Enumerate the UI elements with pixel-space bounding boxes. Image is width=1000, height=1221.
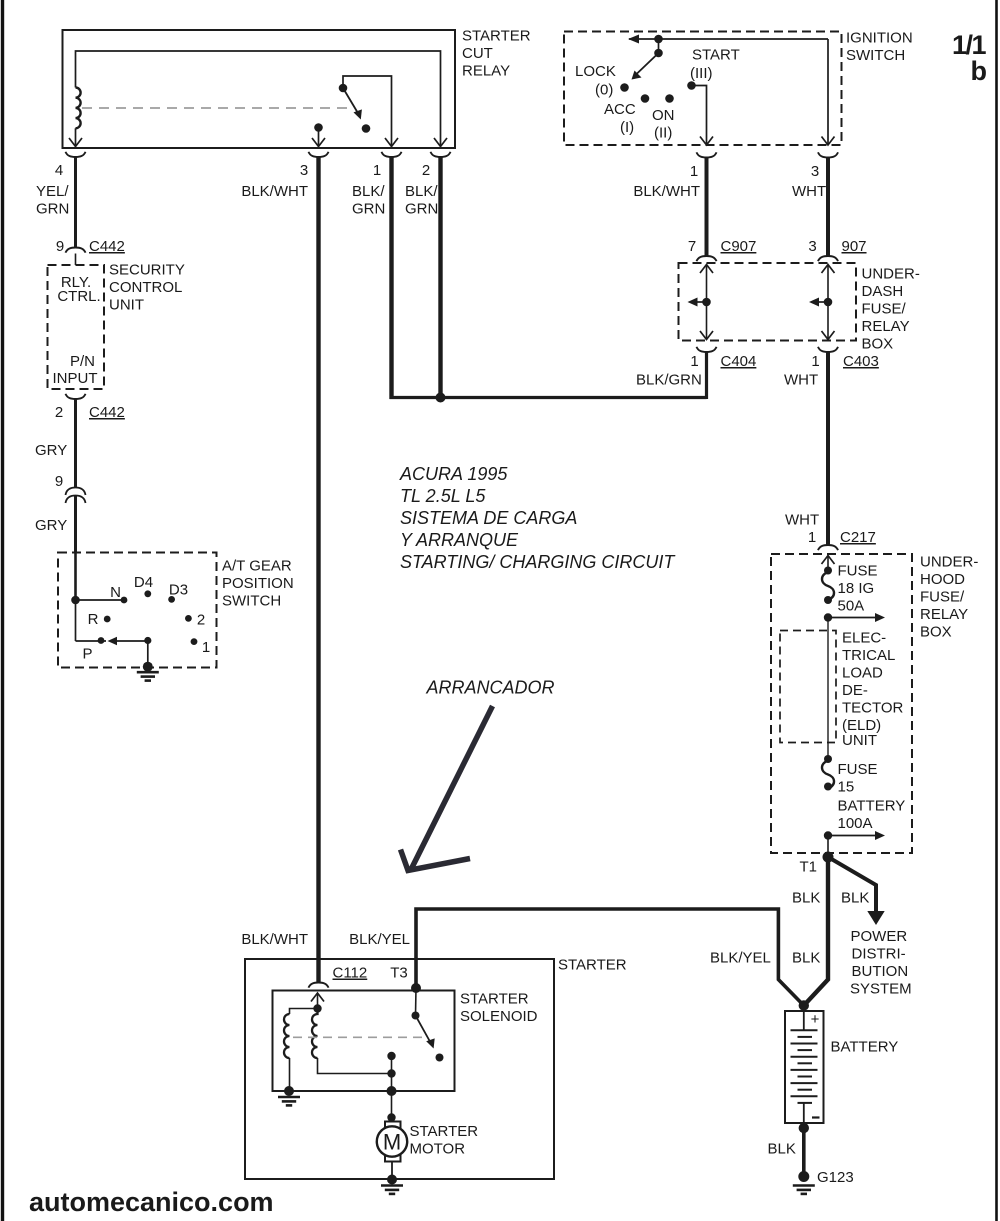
svg-text:T1: T1 — [799, 859, 817, 876]
svg-text:2: 2 — [422, 162, 430, 179]
wire C403 WHT down to C217 — [826, 352, 830, 545]
svg-text:ON: ON — [652, 107, 675, 124]
security control unit box — [48, 265, 105, 389]
svg-text:C442: C442 — [89, 404, 125, 421]
svg-text:FUSE: FUSE — [838, 563, 878, 580]
A/T left vertical wire — [75, 600, 77, 641]
underhood fuse/relay box — [771, 554, 912, 853]
relay switch common contact — [339, 84, 348, 93]
solenoid left coil — [284, 1014, 290, 1058]
ignition pin1 connector cup — [697, 152, 717, 157]
relay pin1 connector cup — [382, 152, 402, 157]
svg-text:(I): (I) — [620, 119, 634, 136]
svg-text:BLK: BLK — [768, 1141, 796, 1158]
wire pin3 BLK/WHT long run — [316, 157, 320, 982]
svg-text:G123: G123 — [817, 1169, 854, 1186]
svg-text:3: 3 — [808, 238, 816, 255]
ignition ACC contact — [641, 94, 650, 103]
battery junction dot — [799, 1000, 809, 1010]
svg-text:C442: C442 — [89, 238, 125, 255]
label 1 C404 — [690, 353, 756, 370]
arrancador arrowhead — [401, 850, 471, 871]
svg-text:FUSE/: FUSE/ — [920, 589, 965, 606]
svg-text:POSITION: POSITION — [222, 575, 294, 592]
svg-text:CUT: CUT — [462, 45, 493, 62]
wire label BLK/GRN pin2 — [405, 183, 438, 218]
svg-text:DISTRI-: DISTRI- — [852, 946, 906, 963]
svg-text:T3: T3 — [390, 965, 408, 982]
svg-text:RELAY: RELAY — [920, 606, 968, 623]
wire pin4 YEL/GRN — [74, 157, 77, 248]
ignition junction dot top — [654, 35, 663, 44]
ignition top wire arrowhead left — [628, 35, 639, 44]
label LOCK (0) — [575, 63, 616, 99]
A/T wire to P with arrowhead — [76, 637, 148, 646]
ignition START wire — [692, 86, 707, 146]
label starter cut relay — [462, 28, 531, 80]
label fuse 18 IG 50A — [838, 563, 878, 615]
label 9 C442 — [56, 238, 125, 255]
underhood exit stub — [827, 836, 829, 858]
underdash left internal wire — [706, 265, 708, 339]
svg-text:SISTEMA DE CARGA: SISTEMA DE CARGA — [400, 508, 577, 528]
fuse 15 battery 100A — [822, 755, 834, 791]
solenoid contact upper dot — [387, 1052, 395, 1060]
svg-text:b: b — [971, 56, 988, 86]
wire GRY upper — [74, 399, 77, 488]
ignition pin3 connector cup — [818, 152, 838, 157]
svg-text:BLK/YEL: BLK/YEL — [710, 950, 771, 967]
svg-text:BUTION: BUTION — [852, 963, 909, 980]
fuse1 junction dot — [824, 613, 832, 621]
power distribution arrowhead — [867, 911, 884, 925]
svg-text:ARRANCADOR: ARRANCADOR — [426, 678, 555, 698]
svg-text:2: 2 — [55, 404, 63, 421]
label ACC (I) — [604, 101, 636, 136]
svg-text:ACURA 1995: ACURA 1995 — [399, 464, 508, 484]
wire T1 to battery — [804, 857, 828, 1006]
label ELD unit — [842, 630, 904, 750]
label 2 C442 — [55, 404, 125, 421]
starter solenoid box — [273, 991, 455, 1092]
label 7 C907 — [688, 238, 757, 255]
solenoid switch NO contact dot — [436, 1054, 444, 1062]
svg-text:UNDER-: UNDER- — [920, 554, 978, 571]
junction dot pin2/horizontal — [436, 393, 446, 403]
svg-text:BOX: BOX — [862, 336, 894, 353]
label RLY. CTRL. — [57, 274, 100, 305]
wire BLK/YEL starter to battery — [416, 909, 804, 1006]
svg-text:(III): (III) — [690, 65, 713, 82]
label underhood box — [920, 554, 978, 641]
svg-text:INPUT: INPUT — [53, 370, 98, 387]
battery bottom junction dot — [799, 1123, 809, 1133]
label P/N INPUT — [53, 353, 98, 387]
label 1 C403 — [811, 353, 879, 370]
relay pin2 connector cup — [431, 152, 451, 157]
motor wire dot — [387, 1113, 395, 1121]
A/T wire to ground — [147, 641, 149, 667]
svg-text:POWER: POWER — [851, 928, 908, 945]
relay switch arm — [343, 88, 359, 114]
svg-text:1: 1 — [373, 162, 381, 179]
relay switch contact NO — [362, 124, 371, 133]
svg-text:WHT: WHT — [785, 512, 819, 529]
connector C403 cup — [818, 347, 838, 352]
fuse2 branch arrow right — [828, 831, 885, 840]
svg-text:LOAD: LOAD — [842, 665, 883, 682]
ignition pivot stub — [658, 39, 660, 53]
label SECURITY CONTROL UNIT — [109, 262, 185, 314]
wire pin1 BLK/GRN — [389, 157, 393, 399]
svg-text:GRY: GRY — [35, 517, 67, 534]
splice symbol double arc — [66, 488, 86, 504]
svg-text:DASH: DASH — [862, 283, 904, 300]
wire horizontal BLK/GRN to C404 — [390, 396, 707, 399]
motor ground dot — [387, 1175, 397, 1185]
svg-text:R: R — [88, 611, 99, 628]
connector C217 cup — [818, 545, 838, 550]
wire battery negative BLK — [802, 1128, 806, 1173]
svg-text:LOCK: LOCK — [575, 63, 616, 80]
ignition switch box — [564, 32, 842, 146]
relay pin3 connector cup — [309, 152, 329, 157]
svg-text:D3: D3 — [169, 582, 188, 599]
svg-text:M: M — [383, 1130, 401, 1155]
svg-text:C907: C907 — [721, 238, 757, 255]
svg-text:50A: 50A — [838, 598, 865, 615]
svg-text:7: 7 — [688, 238, 696, 255]
A/T contact D3 — [168, 596, 175, 603]
underdash right entry arrow — [822, 265, 835, 274]
svg-text:UNIT: UNIT — [109, 297, 144, 314]
solenoid left branch — [290, 1009, 318, 1015]
fuse2 junction dot — [824, 831, 832, 839]
svg-text:START: START — [692, 47, 740, 64]
solenoid left coil lead — [289, 1058, 291, 1091]
label A/T gear position switch — [222, 558, 294, 610]
svg-text:GRN: GRN — [405, 201, 438, 218]
ignition right wire — [827, 39, 829, 145]
ignition pivot dot — [654, 49, 663, 58]
svg-text:HOOD: HOOD — [920, 571, 965, 588]
G123 ground symbol — [793, 1186, 815, 1194]
svg-text:18 IG: 18 IG — [838, 580, 875, 597]
svg-text:C217: C217 — [840, 529, 876, 546]
A/T ground symbol — [137, 672, 159, 680]
svg-text:BLK: BLK — [792, 890, 820, 907]
underdash right junction dot — [824, 298, 833, 307]
underdash left branch arrow — [688, 298, 707, 307]
wire C404 down — [705, 352, 708, 399]
underdash right exit arrow — [822, 331, 835, 340]
label 1 C217 — [808, 529, 876, 546]
label ignition switch — [846, 30, 913, 65]
svg-text:STARTER: STARTER — [558, 957, 627, 974]
underhood entry stub — [827, 556, 829, 571]
svg-text:TL 2.5L L5: TL 2.5L L5 — [400, 486, 486, 506]
starter motor circle — [377, 1126, 407, 1156]
T1 junction dot — [823, 852, 834, 863]
solenoid dashed actuator line — [293, 1036, 426, 1038]
connector C442 bottom cup — [66, 394, 86, 399]
svg-text:GRN: GRN — [352, 201, 385, 218]
label starter solenoid — [460, 991, 538, 1026]
svg-text:WHT: WHT — [792, 183, 826, 200]
svg-text:SOLENOID: SOLENOID — [460, 1008, 538, 1025]
svg-text:STARTER: STARTER — [462, 28, 531, 45]
svg-text:BOX: BOX — [920, 624, 952, 641]
ignition START contact — [687, 81, 696, 90]
svg-text:SYSTEM: SYSTEM — [850, 981, 912, 998]
label ON (II) — [652, 107, 675, 142]
relay pin2 exit arrow — [434, 138, 447, 147]
underdash right branch arrow — [809, 298, 828, 307]
solenoid switch arm arrowhead — [426, 1038, 435, 1048]
svg-text:SWITCH: SWITCH — [846, 47, 905, 64]
svg-text:IGNITION: IGNITION — [846, 30, 913, 47]
svg-text:STARTER: STARTER — [460, 991, 529, 1008]
relay switch arm arrowhead — [354, 109, 362, 119]
relay pin3 stub — [318, 128, 320, 147]
underdash left exit arrow — [700, 331, 713, 340]
ignition top wire — [629, 38, 828, 40]
svg-text:FUSE: FUSE — [838, 761, 878, 778]
relay pin4 connector cup — [66, 152, 86, 157]
connector 907 cup — [818, 256, 838, 261]
label power distribution system — [850, 928, 912, 998]
battery bottom stub — [803, 1103, 805, 1123]
G123 ground dot — [798, 1171, 809, 1182]
svg-text:ACC: ACC — [604, 101, 636, 118]
ELD unit box — [780, 631, 836, 743]
wire pin2 BLK/GRN — [438, 157, 442, 398]
svg-text:(II): (II) — [654, 125, 672, 142]
A/T gear position switch box — [58, 553, 217, 668]
svg-text:ELEC-: ELEC- — [842, 630, 886, 647]
wire label YEL/GRN — [36, 183, 69, 218]
A/T contact N — [121, 597, 128, 604]
solenoid right coil lead — [318, 1058, 392, 1074]
motor feed wire — [391, 1056, 393, 1122]
svg-text:15: 15 — [838, 779, 855, 796]
svg-text:TECTOR: TECTOR — [842, 700, 904, 717]
ignition ON contact — [665, 94, 674, 103]
svg-text:1: 1 — [690, 353, 698, 370]
svg-text:CONTROL: CONTROL — [109, 279, 182, 296]
underdash left junction dot — [702, 298, 711, 307]
connector C112 cup — [309, 983, 329, 988]
svg-text:1: 1 — [811, 353, 819, 370]
battery top stub — [803, 1011, 805, 1030]
battery minus sign — [812, 1116, 820, 1118]
svg-text:STARTER: STARTER — [410, 1123, 479, 1140]
wire GRY lower — [74, 496, 77, 553]
svg-text:BLK: BLK — [792, 950, 820, 967]
relay pin3 exit arrow — [312, 138, 325, 147]
A/T wire to N — [76, 599, 122, 601]
A/T contact 1 — [191, 638, 198, 645]
svg-text:9: 9 — [56, 238, 64, 255]
relay coil lead — [75, 128, 77, 146]
svg-text:DE-: DE- — [842, 682, 868, 699]
A/T contact 2 — [185, 615, 192, 622]
page left border — [1, 0, 4, 1221]
svg-text:MOTOR: MOTOR — [410, 1141, 466, 1158]
svg-text:4: 4 — [55, 162, 63, 179]
solenoid entry arrow — [311, 993, 324, 1002]
svg-text:1: 1 — [202, 639, 210, 656]
fuse 18 IG 50A — [822, 567, 834, 605]
A/T contact D4 — [144, 590, 151, 597]
svg-text:SWITCH: SWITCH — [222, 593, 281, 610]
ignition pin3 exit arrow — [822, 137, 835, 146]
label START (III) — [690, 47, 740, 83]
solenoid ground dot — [284, 1086, 294, 1096]
underdash right internal wire — [827, 265, 829, 339]
svg-text:+: + — [811, 1011, 820, 1028]
wire label BLK/GRN pin1 — [352, 183, 385, 218]
svg-text:automecanico.com: automecanico.com — [29, 1187, 274, 1217]
label underdash box — [862, 266, 920, 353]
relay coil — [76, 88, 81, 129]
svg-text:BLK/WHT: BLK/WHT — [241, 183, 308, 200]
svg-text:907: 907 — [842, 238, 867, 255]
solenoid right coil — [312, 1009, 317, 1059]
svg-text:BLK: BLK — [841, 890, 869, 907]
svg-text:C404: C404 — [721, 353, 757, 370]
svg-text:3: 3 — [300, 162, 308, 179]
svg-text:Y ARRANQUE: Y ARRANQUE — [400, 530, 519, 550]
svg-text:3: 3 — [811, 163, 819, 180]
svg-text:N: N — [110, 584, 121, 601]
svg-text:1: 1 — [808, 529, 816, 546]
svg-text:SECURITY: SECURITY — [109, 262, 185, 279]
svg-text:100A: 100A — [838, 815, 873, 832]
svg-text:TRICAL: TRICAL — [842, 647, 895, 664]
starter outer box — [245, 959, 554, 1179]
starter motor frame — [385, 1122, 401, 1162]
wire ignition pin1 to C907 — [705, 158, 709, 257]
svg-text:(0): (0) — [595, 82, 613, 99]
svg-text:BLK/GRN: BLK/GRN — [636, 372, 702, 389]
solenoid box bottom junction dot — [387, 1086, 397, 1096]
svg-text:WHT: WHT — [784, 372, 818, 389]
solenoid switch arm — [416, 1016, 431, 1043]
underdash fuse/relay box — [679, 263, 857, 341]
solenoid switch contact dot — [412, 1012, 420, 1020]
relay pin1 exit arrow — [385, 138, 398, 147]
page right border — [995, 0, 998, 1221]
relay pin3 stub dot — [314, 123, 323, 132]
svg-text:BLK/YEL: BLK/YEL — [349, 931, 410, 948]
ignition pin1 exit arrow — [700, 137, 713, 146]
svg-text:UNDER-: UNDER- — [862, 266, 920, 283]
svg-text:UNIT: UNIT — [842, 732, 877, 749]
svg-text:STARTING/ CHARGING CIRCUIT: STARTING/ CHARGING CIRCUIT — [400, 552, 676, 572]
arrancador big arrow shaft — [411, 706, 493, 870]
svg-text:BLK/: BLK/ — [352, 183, 385, 200]
T3 terminal dot — [411, 983, 421, 993]
A/T common junction dot — [144, 637, 151, 644]
solenoid ground symbol — [278, 1097, 300, 1105]
ignition switch arm — [636, 53, 659, 75]
A/T ground dot — [143, 662, 153, 672]
relay K: starter cut relay box — [63, 30, 456, 148]
A/T junction dot — [71, 596, 80, 605]
relay switch common wire — [343, 76, 392, 146]
solenoid output dot — [387, 1069, 395, 1077]
svg-text:BATTERY: BATTERY — [838, 798, 906, 815]
connector C907 cup — [697, 256, 717, 261]
svg-text:YEL/: YEL/ — [36, 183, 69, 200]
A/T entry wire — [74, 553, 77, 601]
svg-text:RELAY: RELAY — [862, 318, 910, 335]
ignition LOCK contact — [620, 83, 629, 92]
underhood entry arrow — [822, 556, 835, 565]
motor ground symbol — [381, 1186, 403, 1194]
label 3 907 — [808, 238, 866, 255]
solenoid coil junction dot — [313, 1004, 321, 1012]
svg-text:P: P — [82, 646, 92, 663]
svg-text:BLK/WHT: BLK/WHT — [241, 931, 308, 948]
svg-text:P/N: P/N — [70, 353, 95, 370]
svg-text:FUSE/: FUSE/ — [862, 301, 907, 318]
connector C442 top cup — [66, 248, 86, 253]
svg-text:CTRL.: CTRL. — [57, 288, 100, 305]
svg-text:C112: C112 — [333, 965, 368, 982]
power distribution branch wire — [828, 857, 876, 911]
svg-text:BLK/: BLK/ — [405, 183, 438, 200]
motor to ground wire — [391, 1162, 393, 1180]
A/T contact P — [98, 637, 105, 644]
svg-text:2: 2 — [197, 612, 205, 629]
svg-text:A/T GEAR: A/T GEAR — [222, 558, 292, 575]
relay internal wire top — [76, 51, 441, 146]
svg-text:GRY: GRY — [35, 442, 67, 459]
underdash left entry arrow — [700, 265, 713, 274]
svg-text:GRN: GRN — [36, 201, 69, 218]
svg-text:BLK/WHT: BLK/WHT — [633, 183, 700, 200]
connector C404 cup — [697, 347, 717, 352]
svg-text:1: 1 — [690, 163, 698, 180]
svg-text:C403: C403 — [843, 353, 879, 370]
label starter motor — [410, 1123, 479, 1158]
svg-text:D4: D4 — [134, 574, 153, 591]
relay dashed actuator line — [82, 107, 348, 109]
svg-text:BATTERY: BATTERY — [831, 1039, 899, 1056]
A/T contact R — [104, 616, 111, 623]
svg-text:RELAY: RELAY — [462, 63, 510, 80]
battery box — [785, 1011, 824, 1123]
security unit entry stub — [75, 254, 77, 266]
battery plates — [791, 1030, 818, 1103]
fuse1 branch arrow right — [828, 613, 885, 622]
title text block — [399, 464, 676, 572]
solenoid entry stub — [317, 993, 319, 1009]
wire ignition pin3 to 907 — [826, 158, 830, 257]
underhood internal wire — [827, 618, 829, 760]
ignition arm arrowhead — [632, 71, 642, 80]
svg-text:9: 9 — [55, 473, 63, 490]
label fuse 15 battery 100A — [838, 761, 906, 832]
T3 to switch wire — [415, 988, 418, 1016]
relay pin4 exit arrow — [69, 138, 82, 147]
